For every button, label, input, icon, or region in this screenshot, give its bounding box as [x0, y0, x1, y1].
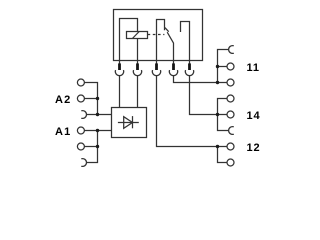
wire pin2 to rectifier box [137, 76, 139, 108]
NC contact tick [165, 28, 169, 32]
junction dot terminal 12 row [216, 145, 219, 148]
terminal circle A2 [77, 95, 84, 102]
A2 group bus [84, 83, 97, 115]
terminal 11 group bus [218, 50, 229, 83]
socket arc below A2 [81, 111, 86, 119]
junction dot A2 arc row [96, 113, 99, 116]
pin 5 plug connection [189, 61, 191, 64]
A1 lower terminal stub [84, 146, 97, 148]
svg-text:A2: A2 [55, 94, 71, 106]
terminal 14 group bus [218, 99, 229, 131]
terminal circle 12 [227, 143, 234, 150]
junction dot A1 row [96, 129, 99, 132]
coil slash [132, 32, 139, 39]
terminal 11 stub [218, 66, 228, 68]
NO contact and wire to pin5 [181, 22, 190, 61]
terminal circle below A1 [77, 143, 84, 150]
dashed mechanical link [148, 34, 165, 36]
terminal circle 14 [227, 111, 234, 118]
A1 group bus [87, 131, 98, 163]
wire pin1 to rectifier box [119, 76, 121, 108]
junction dot terminal 11 stub [216, 65, 219, 68]
terminal circle below 12 [227, 159, 234, 166]
terminal circle A1 [77, 127, 84, 134]
wire A1 row to rectifier box [84, 130, 111, 132]
wire pin4 to terminal 11 [174, 76, 228, 83]
junction dot terminal 14 row [216, 113, 219, 116]
terminal 12 group bus [218, 147, 228, 163]
junction dot A1 lower stub [96, 145, 99, 148]
wire coil bottom to pin2 [137, 39, 139, 61]
wire pin3 to terminal 12 [157, 76, 228, 147]
socket arc terminal 11 group [229, 46, 234, 54]
pin 4 plug connection [173, 61, 175, 64]
wire pin5 to terminal 14 [190, 76, 228, 115]
svg-text:12: 12 [247, 142, 261, 154]
junction dot A2 stub [96, 97, 99, 100]
terminal circle below 11 [227, 79, 234, 86]
terminal circle top left [77, 79, 84, 86]
pin 3 plug connection [156, 61, 158, 64]
wire pin3 riser and NC contact arm [157, 20, 165, 61]
diode D1 [118, 122, 139, 124]
pin 2 plug connection [137, 61, 139, 64]
rectifier box [112, 108, 147, 138]
wire A2 arc row to rectifier box [87, 114, 112, 116]
socket arc below 14 [229, 127, 234, 135]
svg-text:A1: A1 [55, 126, 71, 138]
svg-text:11: 11 [247, 62, 260, 74]
terminal circle 11 [227, 63, 234, 70]
wire pin1 riser and top link to coil [120, 19, 138, 61]
pin 1 plug connection [119, 61, 121, 64]
junction dot terminal 11 row [216, 81, 219, 84]
svg-text:14: 14 [247, 110, 261, 122]
socket arc bottom left [81, 159, 86, 167]
terminal circle above 14 [227, 95, 234, 102]
switch lever to pin4 [167, 32, 173, 60]
relay body outline (top box) [114, 10, 203, 61]
A2 terminal stub [84, 98, 97, 100]
relay coil K1 [127, 32, 148, 39]
